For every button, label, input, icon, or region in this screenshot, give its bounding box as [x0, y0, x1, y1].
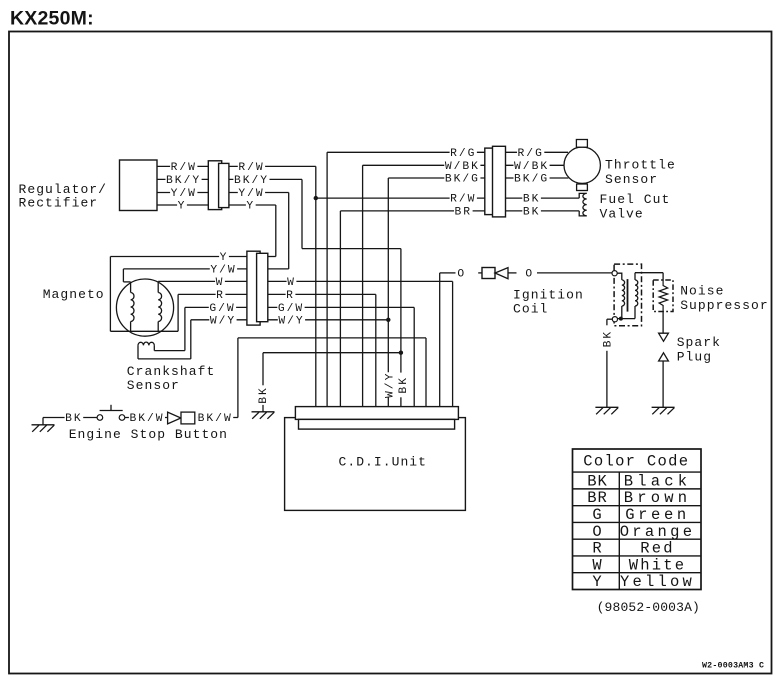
svg-text:G: G [592, 506, 602, 524]
svg-text:Coil: Coil [513, 302, 548, 317]
svg-text:W/BK: W/BK [514, 161, 549, 173]
svg-text:BK/G: BK/G [445, 174, 480, 186]
svg-text:W: W [592, 556, 602, 574]
svg-text:BK/W: BK/W [198, 413, 233, 425]
svg-text:Brown: Brown [624, 489, 692, 507]
svg-text:R/W: R/W [450, 194, 476, 206]
svg-text:Valve: Valve [600, 207, 644, 222]
svg-text:BK: BK [523, 194, 541, 206]
svg-text:BR: BR [587, 489, 608, 507]
svg-text:BK/G: BK/G [514, 174, 549, 186]
svg-text:R: R [216, 290, 225, 302]
svg-text:Magneto: Magneto [43, 287, 105, 302]
svg-text:Sensor: Sensor [127, 378, 180, 393]
svg-text:O: O [525, 269, 534, 281]
svg-text:Rectifier: Rectifier [19, 196, 99, 211]
svg-text:Plug: Plug [677, 350, 712, 365]
svg-text:Crankshaft: Crankshaft [127, 364, 216, 379]
svg-text:Yellow: Yellow [620, 573, 695, 591]
svg-text:Spark: Spark [677, 335, 721, 350]
svg-text:C.D.I.Unit: C.D.I.Unit [339, 455, 428, 470]
svg-text:Y/W: Y/W [210, 265, 236, 277]
svg-text:Color Code: Color Code [583, 453, 689, 471]
svg-text:W/Y: W/Y [385, 372, 397, 398]
svg-text:Y: Y [178, 201, 187, 213]
svg-text:R: R [592, 540, 602, 558]
svg-text:Fuel Cut: Fuel Cut [600, 192, 671, 207]
svg-text:W/Y: W/Y [210, 315, 236, 327]
svg-text:BK: BK [603, 330, 615, 348]
svg-text:BK: BK [258, 386, 270, 404]
svg-text:Y: Y [220, 252, 229, 264]
svg-text:W/BK: W/BK [445, 161, 480, 173]
svg-text:R/G: R/G [450, 148, 476, 160]
svg-text:Engine Stop Button: Engine Stop Button [69, 427, 228, 442]
svg-text:Noise: Noise [680, 284, 724, 299]
svg-text:Red: Red [640, 540, 675, 558]
svg-text:Ignition: Ignition [513, 288, 584, 303]
svg-text:G/W: G/W [209, 303, 235, 315]
svg-text:BK/Y: BK/Y [234, 175, 269, 187]
svg-text:BK: BK [65, 413, 83, 425]
svg-text:G/W: G/W [278, 303, 304, 315]
svg-text:BK: BK [523, 207, 541, 219]
svg-text:BR: BR [455, 207, 473, 219]
svg-text:Sensor: Sensor [605, 172, 658, 187]
svg-text:Black: Black [624, 472, 692, 490]
svg-text:O: O [592, 523, 602, 541]
svg-text:R/W: R/W [171, 162, 197, 174]
svg-text:Y/W: Y/W [171, 188, 197, 200]
svg-text:R: R [286, 290, 295, 302]
svg-text:W: W [287, 277, 296, 289]
svg-text:Orange: Orange [620, 523, 696, 541]
svg-text:W/Y: W/Y [278, 315, 304, 327]
svg-text:R/W: R/W [238, 162, 264, 174]
svg-text:Y: Y [592, 573, 602, 591]
svg-text:White: White [629, 556, 687, 574]
svg-text:W2-0003AM3 C: W2-0003AM3 C [702, 662, 764, 671]
svg-text:O: O [457, 269, 466, 281]
svg-text:Y: Y [246, 201, 255, 213]
svg-text:Green: Green [625, 506, 690, 524]
svg-text:(98052-0003A): (98052-0003A) [597, 600, 700, 615]
svg-text:W: W [216, 277, 225, 289]
svg-text:Throttle: Throttle [605, 158, 676, 173]
svg-text:R/G: R/G [518, 148, 544, 160]
svg-text:BK: BK [398, 376, 410, 394]
svg-text:Y/W: Y/W [238, 188, 264, 200]
svg-text:KX250M:: KX250M: [10, 8, 94, 30]
svg-text:Suppressor: Suppressor [680, 298, 769, 313]
svg-text:BK/Y: BK/Y [166, 175, 201, 187]
svg-text:BK: BK [587, 472, 608, 490]
svg-text:BK/W: BK/W [129, 413, 164, 425]
